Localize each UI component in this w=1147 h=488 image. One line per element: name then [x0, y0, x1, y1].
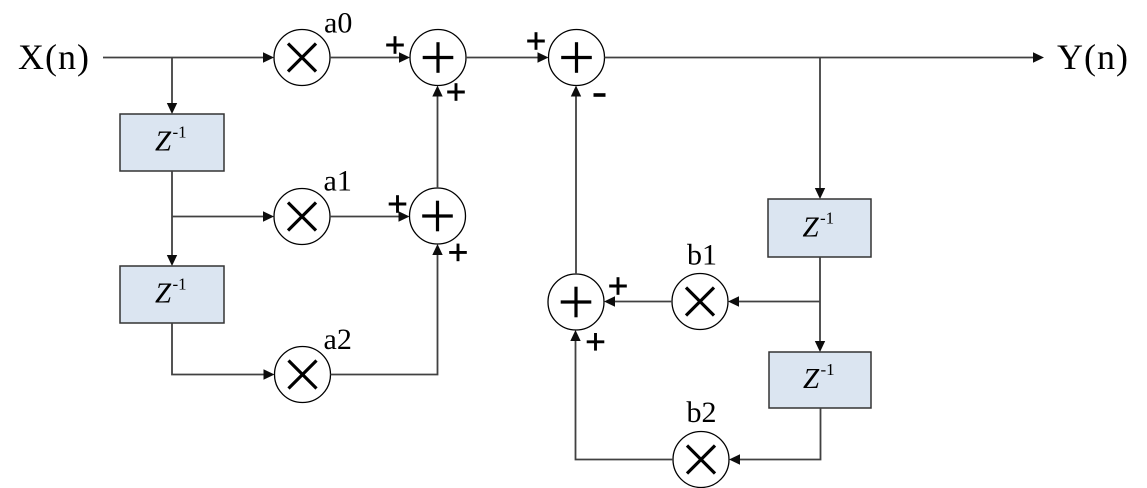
wire: b2 left and up to adder S4	[570, 330, 673, 460]
svg-text:b2: b2	[687, 396, 717, 429]
svg-text:Y(n): Y(n)	[1057, 37, 1129, 77]
delay block Z1	[120, 114, 224, 171]
label b2	[687, 396, 717, 429]
wire: output branch down to delay Zb1	[815, 58, 825, 200]
wire: a0 to adder S1	[330, 52, 410, 62]
svg-text:-1: -1	[821, 360, 835, 379]
adder S2	[549, 30, 605, 86]
output label Y(n)	[1057, 37, 1129, 77]
delay block Zb1	[768, 199, 871, 257]
adder S1	[410, 30, 466, 86]
wire: Zb1 down to delay Zb2	[815, 257, 825, 352]
sign + at S4 right input	[609, 277, 627, 295]
svg-text:b1: b1	[687, 239, 717, 272]
svg-text:a2: a2	[324, 323, 352, 356]
svg-text:Z: Z	[155, 278, 172, 310]
delay block Z2	[120, 266, 224, 323]
svg-text:a0: a0	[324, 7, 352, 40]
sign + at S2 left input	[527, 32, 545, 50]
multiplier b2	[673, 432, 729, 488]
input label X(n)	[18, 37, 90, 77]
wire: S1 to adder S2	[466, 52, 549, 62]
wire: a1 to adder S3	[330, 211, 410, 221]
svg-text:-1: -1	[173, 275, 187, 294]
wire: input branch down to delay Z1	[167, 58, 177, 115]
label b1	[687, 239, 717, 272]
adder S3	[410, 188, 466, 244]
wire: Z2 down and right to multiplier a2	[172, 323, 275, 380]
label a1	[324, 165, 352, 198]
wire: a2 right and up to adder S3	[331, 244, 443, 375]
sign + at S3 bottom input	[449, 244, 467, 262]
multiplier a1	[274, 189, 330, 245]
svg-text:a1: a1	[324, 165, 352, 198]
svg-text:Z: Z	[803, 212, 820, 244]
label a0	[324, 7, 352, 40]
sign - at S2 bottom input	[594, 93, 606, 97]
wire: Zb2 down and left to multiplier b2	[729, 408, 821, 465]
wire: tap to multiplier a1	[172, 211, 274, 221]
delay block Zb2	[769, 352, 871, 408]
label a2	[324, 323, 352, 356]
wire: Z1 down to delay Z2	[167, 171, 177, 266]
svg-text:-1: -1	[173, 123, 187, 142]
wire: S3 up to adder S1	[432, 86, 442, 189]
svg-text:Z: Z	[803, 363, 820, 395]
sign + at S3 left input	[389, 195, 407, 213]
adder S4	[548, 274, 604, 330]
svg-text:X(n): X(n)	[18, 37, 90, 77]
sign + at S1 bottom input	[447, 83, 465, 101]
svg-text:-1: -1	[820, 209, 834, 228]
multiplier a2	[275, 347, 331, 403]
sign + at S4 bottom input	[587, 333, 605, 351]
sign + at S1 left input	[386, 36, 404, 54]
svg-text:Z: Z	[155, 126, 172, 158]
wire: b1 to adder S4	[604, 296, 672, 306]
wire: S4 up to adder S2	[571, 86, 581, 275]
multiplier b1	[672, 274, 728, 330]
multiplier a0	[274, 30, 330, 86]
wire: tap left to multiplier b1	[728, 296, 820, 306]
wire: S2 to output Y(n)	[605, 52, 1045, 62]
wire: X(n) input to multiplier a0	[103, 52, 274, 62]
